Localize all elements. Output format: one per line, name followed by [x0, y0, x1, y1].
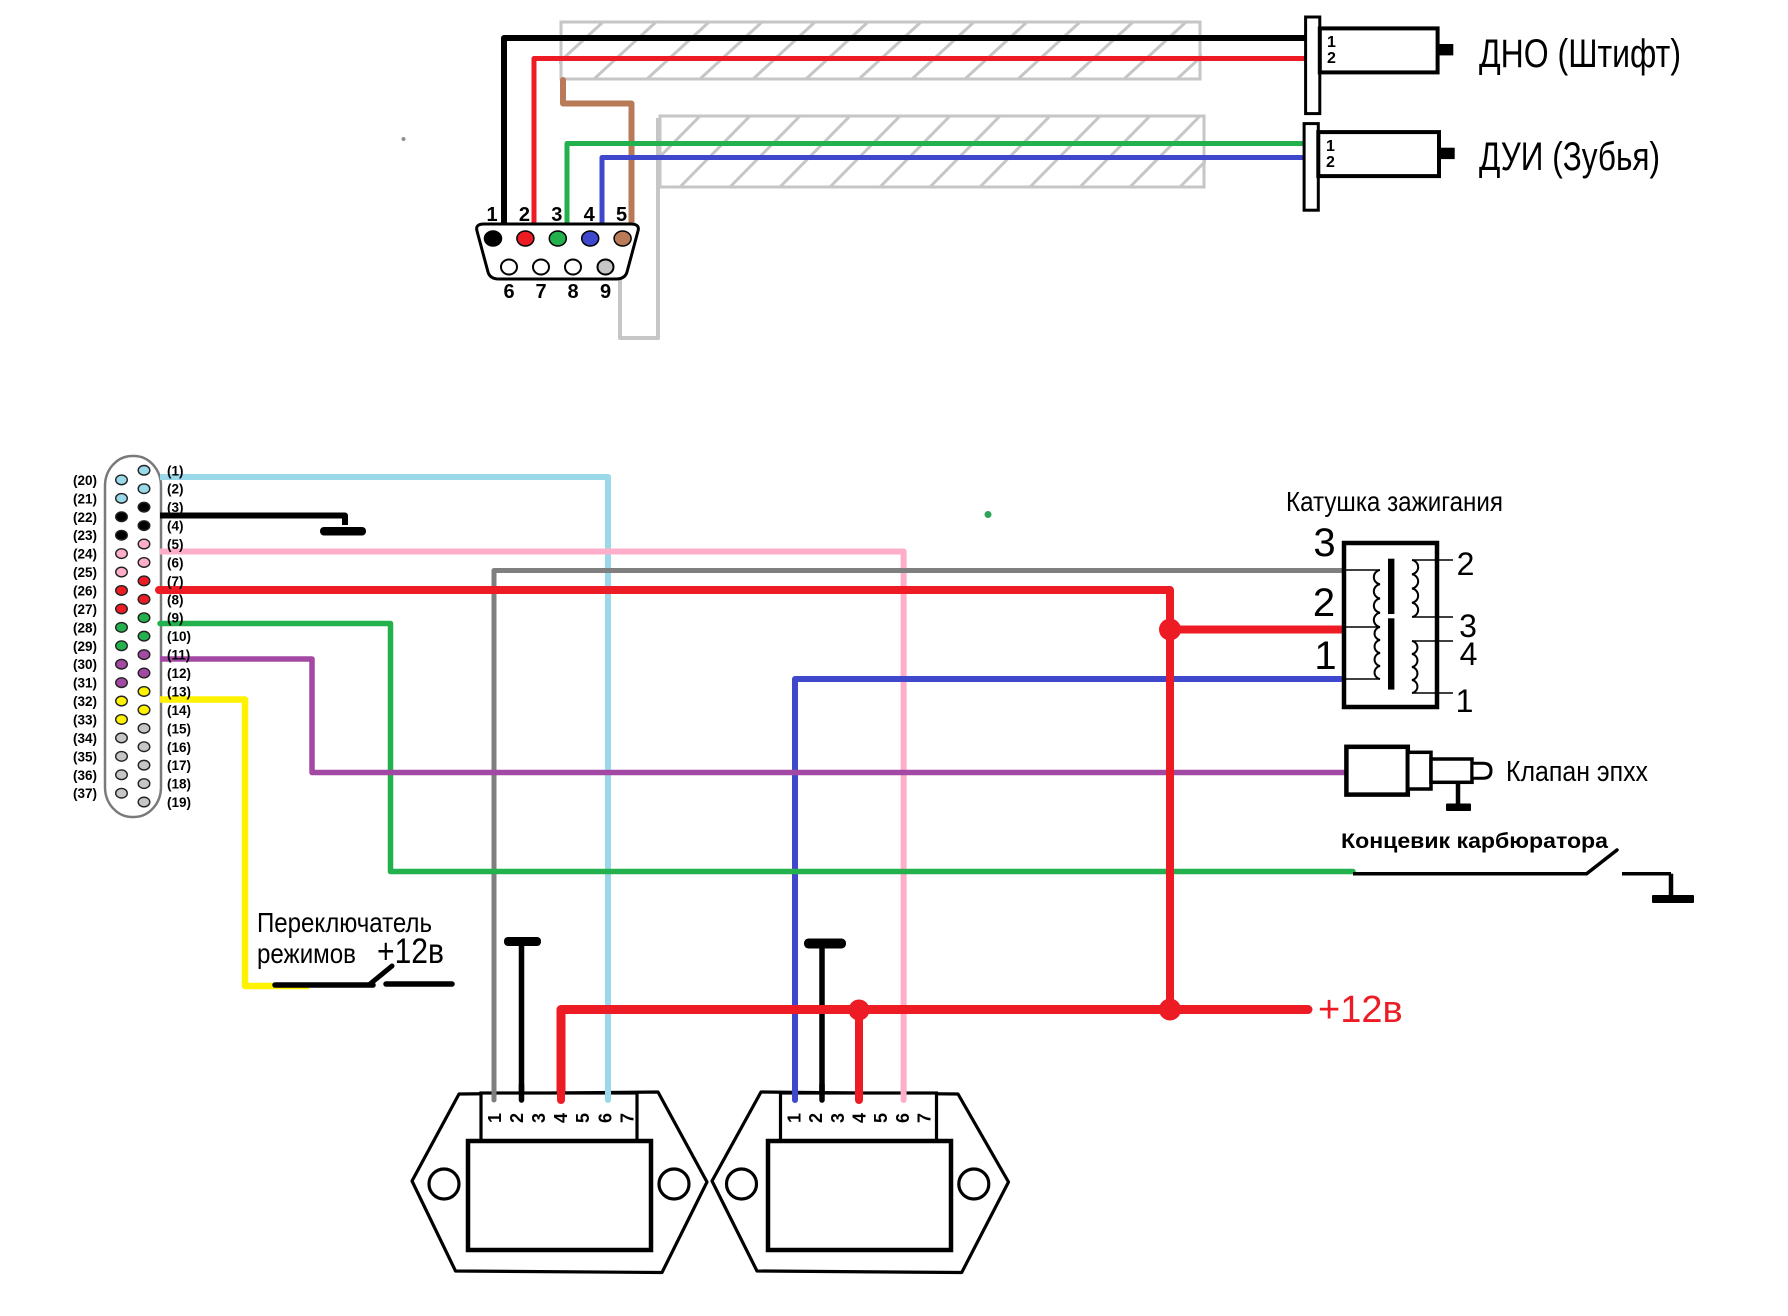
- ignition module 2 pin strip: [781, 1093, 937, 1143]
- wire green DB37(9) to carburetor switch: [160, 624, 1353, 872]
- svg-text:2: 2: [1327, 50, 1336, 67]
- wire tail gray module1 pin1 into pin strip: [492, 1085, 497, 1100]
- connector X1 (DB9 male) body: [477, 224, 639, 279]
- wire purple DB37(11) to EPHH valve: [160, 659, 1346, 773]
- DB37 pin (32) dot: [116, 696, 128, 706]
- svg-text:7: 7: [915, 1113, 935, 1123]
- svg-text:(4): (4): [167, 519, 184, 534]
- DB37 pin (21) dot: [116, 494, 128, 504]
- ignition module 2 screw hole 1: [727, 1169, 757, 1199]
- junction dot (red, +12v rail module2): [849, 1000, 870, 1021]
- svg-text:7: 7: [617, 1113, 637, 1123]
- DB37 pin (33) dot: [116, 715, 128, 725]
- wire black DB9 pin1 to DNO pin1: [504, 38, 1306, 232]
- wire yellow DB37(13) to mode switch: [160, 700, 309, 987]
- ignition module 2 screw hole 2: [959, 1169, 989, 1199]
- DB37 pin (35) dot: [116, 752, 128, 762]
- svg-text:(12): (12): [167, 666, 191, 681]
- DB37 pin (30) dot: [116, 659, 128, 669]
- DB37 pin (18) dot: [138, 779, 150, 789]
- DB37 pin (34) dot: [116, 733, 128, 743]
- ignition module 1 pin strip: [481, 1093, 637, 1143]
- svg-text:ДУИ (Зубья): ДУИ (Зубья): [1479, 135, 1660, 179]
- DB37 pin (2) dot: [138, 484, 150, 494]
- svg-text:(19): (19): [167, 795, 191, 810]
- DB37 pin (8) dot: [138, 595, 150, 605]
- wire red +12v rail: [561, 1010, 1308, 1099]
- svg-text:(2): (2): [167, 482, 184, 497]
- wire gray coil pin3 to module1 pin1: [494, 571, 1344, 1099]
- wire tail black module2 pin2 into pin strip: [819, 1085, 825, 1100]
- svg-text:2: 2: [806, 1113, 826, 1123]
- svg-text:(35): (35): [73, 749, 97, 764]
- coil internal connection stubs: [1346, 560, 1453, 693]
- EPHH valve nub: [1472, 763, 1491, 778]
- svg-text:3: 3: [551, 204, 562, 226]
- svg-text:3: 3: [529, 1113, 549, 1123]
- svg-text:(28): (28): [73, 620, 97, 635]
- svg-text:+12в: +12в: [377, 932, 444, 971]
- svg-text:1: 1: [1314, 634, 1336, 678]
- svg-text:(27): (27): [73, 602, 97, 617]
- wire shield drain (DB9 pin 9 to cable screens): [620, 118, 658, 338]
- ignition module 1 hexagon body: [412, 1092, 707, 1273]
- wire black DB37(3) to ground: [160, 516, 345, 526]
- svg-text:7: 7: [535, 281, 546, 303]
- svg-text:5: 5: [871, 1113, 891, 1123]
- sensor DUI body: [1318, 132, 1439, 176]
- svg-text:(18): (18): [167, 777, 191, 792]
- DB37 pin (13) dot: [138, 687, 150, 697]
- sensor DUI flange: [1304, 124, 1318, 211]
- svg-text:(10): (10): [167, 629, 191, 644]
- wire tail red module1 pin4 into pin strip: [557, 1085, 565, 1100]
- svg-text:(9): (9): [167, 611, 184, 626]
- svg-text:8: 8: [567, 281, 578, 303]
- svg-text:4: 4: [850, 1113, 870, 1123]
- DB37 pin (36) dot: [116, 770, 128, 780]
- svg-text:4: 4: [584, 204, 596, 226]
- mode switch pole wire: [275, 982, 373, 988]
- DB37 pin (25) dot: [116, 567, 128, 577]
- DB37 pin (10) dot: [138, 631, 150, 641]
- DB37 pin (6) dot: [138, 558, 150, 568]
- wire green DB9 pin3 to DUI pin1: [567, 144, 1318, 231]
- DB9 pin 8 dot: [565, 260, 581, 275]
- svg-text:(3): (3): [167, 500, 184, 515]
- svg-text:(5): (5): [167, 537, 184, 552]
- svg-text:3: 3: [1313, 521, 1335, 565]
- ground symbol (DB37 pin 3): [320, 527, 366, 536]
- wire tail red module2 pin4 into pin strip: [855, 1085, 863, 1100]
- DB9 pin 2 dot: [517, 231, 534, 246]
- DB9 pin 1 dot: [485, 231, 502, 246]
- DB37 pin (24) dot: [116, 549, 128, 559]
- svg-text:(1): (1): [167, 463, 184, 478]
- DB37 pin (20) dot: [116, 475, 128, 485]
- DB37 pin (15) dot: [138, 724, 150, 734]
- wire cyan DB37(1) to module1 pin6: [160, 477, 608, 1098]
- sensor DUI connector nub: [1439, 148, 1455, 159]
- svg-text:(7): (7): [167, 574, 184, 589]
- ignition module 2 hexagon body: [712, 1092, 1009, 1273]
- carb switch blade: [1587, 850, 1617, 874]
- wire tail pink module2 pin6 into pin strip: [901, 1085, 907, 1100]
- shielded cable screen S2 (to DUI sensor): [630, 116, 1250, 187]
- svg-text:(21): (21): [73, 491, 97, 506]
- DB37 pin (7) dot: [138, 576, 150, 586]
- stray gray dot: [402, 137, 406, 141]
- sensor DNO connector nub: [1438, 44, 1454, 55]
- svg-text:2: 2: [519, 204, 530, 226]
- DB9 pin 6 dot: [501, 260, 517, 275]
- connector X2 (DB37) body: [105, 456, 161, 817]
- svg-text:(30): (30): [73, 657, 97, 672]
- wire red +12v to module2 pin4: [855, 1010, 863, 1098]
- wire tail cyan module1 pin6 into pin strip: [605, 1085, 611, 1100]
- svg-text:(15): (15): [167, 721, 191, 736]
- svg-text:2: 2: [1457, 546, 1475, 582]
- svg-text:Клапан эпхх: Клапан эпхх: [1506, 756, 1648, 788]
- svg-text:(37): (37): [73, 786, 97, 801]
- carb switch pole wire: [1353, 872, 1587, 876]
- wire pink DB37(5) to module2 pin6: [160, 552, 904, 1099]
- wire brown screen S1 to DB9 pin5: [563, 80, 632, 236]
- svg-text:1: 1: [485, 1113, 505, 1123]
- DB37 pin (28) dot: [116, 623, 128, 633]
- coil core bars: [1388, 559, 1394, 614]
- svg-text:(23): (23): [73, 528, 97, 543]
- svg-text:1: 1: [486, 204, 497, 226]
- svg-text:(33): (33): [73, 712, 97, 727]
- svg-text:1: 1: [1456, 683, 1474, 719]
- DB37 pin (17) dot: [138, 760, 150, 770]
- svg-text:(34): (34): [73, 731, 97, 746]
- ignition module 2 body rect: [768, 1141, 951, 1250]
- junction dot (red, coil branch): [1159, 619, 1181, 641]
- svg-text:(24): (24): [73, 547, 97, 562]
- svg-text:5: 5: [573, 1113, 593, 1123]
- svg-text:2: 2: [1326, 154, 1335, 171]
- svg-text:6: 6: [893, 1113, 913, 1123]
- svg-text:1: 1: [784, 1113, 804, 1123]
- DB37 pin (27) dot: [116, 604, 128, 614]
- svg-text:4: 4: [551, 1113, 571, 1123]
- svg-text:(26): (26): [73, 583, 97, 598]
- svg-text:(14): (14): [167, 703, 191, 718]
- svg-text:(29): (29): [73, 639, 97, 654]
- wire tail black module1 pin2 into pin strip: [519, 1085, 525, 1100]
- svg-text:2: 2: [1313, 581, 1335, 625]
- DB9 pin 7 dot: [533, 260, 549, 275]
- coil primary winding (left): [1374, 570, 1380, 679]
- EPHH valve ground: [1456, 782, 1461, 805]
- svg-text:(6): (6): [167, 555, 184, 570]
- sensor DNO flange: [1306, 17, 1320, 114]
- DB37 pin (12) dot: [138, 668, 150, 678]
- DB9 pin 5 dot: [614, 231, 631, 246]
- svg-text:ДНО (Штифт): ДНО (Штифт): [1479, 32, 1681, 76]
- mode switch contact wire: [386, 981, 452, 987]
- svg-text:(22): (22): [73, 510, 97, 525]
- DB37 pin (1) dot: [138, 466, 150, 476]
- DB37 pin (26) dot: [116, 586, 128, 596]
- mode switch blade: [370, 966, 392, 984]
- DB37 pin (4) dot: [138, 521, 150, 531]
- DB37 pin (9) dot: [138, 613, 150, 623]
- wire red junction to coil pin2: [1170, 626, 1344, 634]
- ground T module2 pin2: [819, 946, 825, 1098]
- svg-text:Концевик карбюратора: Концевик карбюратора: [1341, 830, 1608, 853]
- ignition coil box: [1344, 543, 1437, 707]
- svg-text:(16): (16): [167, 740, 191, 755]
- svg-text:4: 4: [1460, 636, 1478, 672]
- svg-text:(20): (20): [73, 473, 97, 488]
- svg-text:(8): (8): [167, 592, 184, 607]
- EPHH valve body: [1346, 747, 1407, 795]
- svg-text:(17): (17): [167, 758, 191, 773]
- svg-text:(13): (13): [167, 684, 191, 699]
- svg-text:режимов: режимов: [257, 938, 356, 969]
- svg-text:3: 3: [828, 1113, 848, 1123]
- svg-text:(36): (36): [73, 768, 97, 783]
- wire red DB37(7) down to +12v rail: [159, 590, 1170, 1010]
- DB37 pin (37) dot: [116, 788, 128, 798]
- ground T module1 pin2: [519, 944, 525, 1098]
- DB37 pin (23) dot: [116, 530, 128, 540]
- svg-text:6: 6: [595, 1113, 615, 1123]
- svg-text:2: 2: [507, 1113, 527, 1123]
- svg-text:+12в: +12в: [1318, 989, 1403, 1031]
- wire blue coil pin1 to module2 pin1: [795, 679, 1344, 1098]
- DB37 pin (29) dot: [116, 641, 128, 651]
- coil secondary winding (right): [1412, 560, 1418, 693]
- svg-text:6: 6: [503, 281, 514, 303]
- DB37 pin (22) dot: [116, 512, 128, 522]
- DB37 pin (16) dot: [138, 742, 150, 752]
- wire red DB9 pin2 to DNO pin2: [534, 59, 1306, 231]
- wire tail blue module2 pin1 into pin strip: [792, 1085, 798, 1100]
- DB9 pin 9 dot: [598, 260, 614, 275]
- wire blue DB9 pin4 to DUI pin2: [602, 158, 1318, 231]
- DB37 pin (31) dot: [116, 678, 128, 688]
- svg-text:(32): (32): [73, 694, 97, 709]
- svg-text:1: 1: [1326, 138, 1335, 155]
- sensor DNO body: [1320, 28, 1438, 72]
- DB37 pin (5) dot: [138, 539, 150, 549]
- DB9 pin 4 dot: [582, 231, 599, 246]
- DB37 pin (3) dot: [138, 502, 150, 512]
- svg-text:Катушка зажигания: Катушка зажигания: [1286, 486, 1503, 517]
- svg-text:5: 5: [616, 204, 627, 226]
- shielded cable screen S1 (to DNO sensor): [541, 22, 1239, 79]
- DB37 pin (19) dot: [138, 797, 150, 807]
- svg-text:1: 1: [1327, 34, 1336, 51]
- DB37 pin (14) dot: [138, 705, 150, 715]
- carb switch contact: [1622, 872, 1671, 876]
- ignition module 1 screw hole 2: [659, 1169, 689, 1199]
- ignition module 1 body rect: [468, 1141, 651, 1250]
- svg-text:9: 9: [600, 281, 611, 303]
- svg-text:(31): (31): [73, 676, 97, 691]
- ignition module 1 screw hole 1: [429, 1169, 459, 1199]
- svg-text:(25): (25): [73, 565, 97, 580]
- svg-text:(11): (11): [167, 648, 190, 663]
- DB37 pin (11) dot: [138, 650, 150, 660]
- junction dot (red, +12v rail right): [1159, 999, 1181, 1021]
- DB9 pin 3 dot: [549, 231, 566, 246]
- stray green dot: [985, 511, 992, 518]
